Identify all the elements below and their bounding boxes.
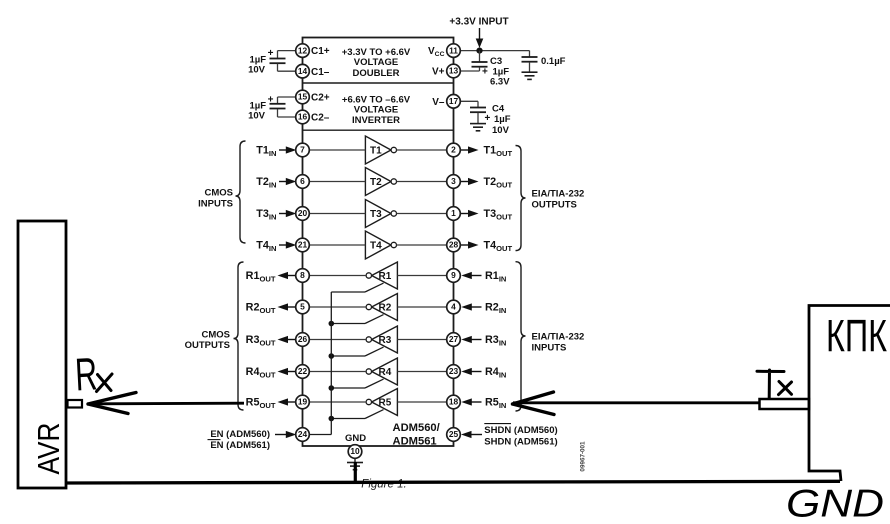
svg-text:9: 9	[451, 270, 456, 280]
node: pin 13	[447, 64, 461, 78]
svg-text:16: 16	[298, 112, 308, 122]
wire: T1 output to pin	[397, 149, 454, 151]
node: pin 10	[348, 445, 362, 459]
node: arrowhead at AVR Rx	[88, 393, 136, 414]
node R5OUT label and arrow	[246, 397, 296, 411]
svg-text:C4: C4	[492, 104, 505, 115]
node T1OUT label and arrow	[460, 145, 512, 159]
node T2IN label and arrow	[256, 176, 296, 190]
node T2OUT label and arrow	[460, 176, 512, 190]
svg-text:18: 18	[449, 397, 459, 407]
wire: pin 10 to ground	[354, 458, 356, 463]
wire: GND bus from AVR to KPK (hand drawn)	[66, 481, 840, 483]
node R4OUT label and arrow	[246, 366, 296, 380]
svg-text:INPUTS: INPUTS	[532, 342, 567, 353]
node: pin 1	[447, 207, 461, 221]
wire: VCC rail pin 11 to bypass caps	[460, 50, 529, 52]
node: EIA/TIA-232 INPUTS brace	[516, 262, 526, 411]
node: CMOS INPUTS label	[198, 187, 233, 209]
svg-text:INVERTER: INVERTER	[352, 115, 400, 126]
receiver R5 inverter	[366, 389, 397, 416]
svg-text:1: 1	[451, 208, 456, 218]
node: voltage doubler block label	[342, 47, 411, 79]
node: CMOS OUTPUTS brace	[234, 262, 244, 410]
svg-text:CMOS: CMOS	[202, 329, 231, 340]
node R1OUT label and arrow	[246, 270, 296, 284]
svg-text:V–: V–	[432, 97, 445, 108]
wire: T2 output to pin	[397, 181, 454, 183]
node: pin 2	[447, 143, 461, 157]
capacitor C1 (1uF 10V) at pins 12/14	[248, 48, 296, 76]
wire: T4 output to pin	[397, 244, 454, 246]
node R5IN label and arrow	[461, 397, 506, 411]
svg-text:VOLTAGE: VOLTAGE	[354, 105, 399, 116]
node: enable junction R5	[329, 416, 335, 422]
node SHDN-bar (ADM560) label	[484, 424, 557, 436]
capacitor C4 (1uF 10V) on V-	[460, 101, 510, 136]
svg-text:10V: 10V	[492, 125, 510, 136]
node: pin 14	[296, 64, 310, 78]
node: pin 27	[447, 333, 461, 347]
capacitor 0.1uF bypass	[522, 51, 566, 80]
svg-text:T4: T4	[370, 241, 382, 252]
svg-text:+3.3V INPUT: +3.3V INPUT	[449, 17, 508, 28]
svg-text:1µF: 1µF	[494, 114, 511, 125]
node T1IN label and arrow	[256, 145, 296, 159]
node T3IN label and arrow	[256, 208, 296, 222]
svg-text:3: 3	[451, 176, 456, 186]
node: enable junction R2	[329, 321, 335, 327]
svg-text:19: 19	[298, 397, 308, 407]
wire: +3.3V input drop	[479, 28, 481, 40]
svg-text:2: 2	[451, 145, 456, 155]
node: pin 12	[296, 44, 310, 58]
svg-text:8: 8	[300, 270, 305, 280]
svg-text:T3: T3	[370, 209, 382, 220]
node: arrow out of pin 25	[461, 431, 482, 438]
wire: enable tap to R1	[331, 291, 365, 293]
transmitter T2 inverter	[365, 168, 396, 196]
svg-text:EIA/TIA-232: EIA/TIA-232	[532, 188, 585, 199]
wire: divider below voltage inverter	[303, 129, 454, 131]
wire: pin to T1 input	[303, 149, 366, 151]
wire: enable tap to R2	[331, 323, 365, 325]
node: pin 24	[296, 428, 310, 442]
svg-text:ADM561: ADM561	[393, 435, 437, 447]
node: arrow into pin 24	[275, 431, 296, 438]
node: pin 4	[447, 300, 461, 314]
wire: pin to R3 input	[397, 339, 453, 341]
receiver R1 inverter	[366, 262, 397, 289]
svg-text:EN (ADM561): EN (ADM561)	[210, 440, 270, 451]
wire: divider below voltage doubler	[303, 82, 454, 84]
wire: R3 output to pin	[303, 339, 367, 341]
svg-text:10: 10	[350, 446, 360, 456]
svg-text:SHDN (ADM561): SHDN (ADM561)	[484, 437, 557, 448]
node: pin 19	[296, 395, 310, 409]
op-amp U1: ADM560/ADM561 chip outline	[303, 38, 454, 447]
node: EIA/TIA-232 OUTPUTS label	[532, 188, 585, 210]
wire: Tx line from KPK to R5IN (hand drawn)	[513, 401, 759, 404]
svg-text:OUTPUTS: OUTPUTS	[185, 340, 230, 351]
svg-text:GND: GND	[786, 483, 884, 524]
node: pin 15	[296, 90, 310, 104]
transmitter T4 inverter	[365, 231, 396, 259]
node R2IN label and arrow	[461, 302, 506, 316]
svg-text:15: 15	[298, 92, 308, 102]
svg-text:0.1µF: 0.1µF	[541, 56, 566, 67]
wire: T3 output to pin	[397, 213, 454, 215]
svg-text:R2: R2	[379, 303, 392, 314]
svg-text:V+: V+	[432, 67, 445, 78]
node: arrowhead at R5IN	[513, 392, 555, 415]
svg-text:INPUTS: INPUTS	[198, 198, 233, 209]
svg-text:17: 17	[449, 96, 459, 106]
node: Tx label	[757, 370, 792, 398]
node: pin 20	[296, 207, 310, 221]
svg-text:4: 4	[451, 302, 456, 312]
node: pin 8	[296, 269, 310, 283]
svg-text:+: +	[482, 66, 488, 77]
wire: R1 output to pin	[303, 275, 367, 277]
node: pin 18	[447, 395, 461, 409]
node: voltage inverter block label	[342, 94, 411, 126]
node: chip part number ADM560/ADM561	[393, 422, 440, 447]
svg-text:22: 22	[298, 366, 308, 376]
wire: pin to T4 input	[303, 244, 366, 246]
node: pin 26	[296, 333, 310, 347]
svg-text:EN (ADM560): EN (ADM560)	[210, 429, 270, 440]
node: pin 5	[296, 300, 310, 314]
node: pin 25	[447, 428, 461, 442]
svg-text:CMOS: CMOS	[205, 187, 234, 198]
transmitter T1 inverter	[365, 136, 396, 164]
svg-text:R5: R5	[379, 398, 392, 409]
svg-text:10V: 10V	[248, 65, 266, 76]
svg-text:14: 14	[298, 66, 308, 76]
node: pin 17	[447, 95, 461, 109]
capacitor C2 (1uF 10V) at pins 15/16	[248, 94, 296, 121]
wire: enable tap to R3	[331, 355, 365, 357]
node: AVR microcontroller box (hand drawn)	[18, 221, 66, 488]
wire: pin to T2 input	[303, 181, 366, 183]
svg-text:Figure 1.: Figure 1.	[361, 479, 406, 491]
svg-text:C3: C3	[490, 56, 502, 67]
svg-text:23: 23	[449, 366, 459, 376]
node: EIA/TIA-232 INPUTS label	[532, 331, 585, 353]
node R3OUT label and arrow	[246, 334, 296, 348]
node: enable junction R3	[329, 353, 335, 359]
svg-text:25: 25	[449, 429, 459, 439]
node T3OUT label and arrow	[460, 208, 512, 222]
node T4OUT label and arrow	[460, 240, 512, 254]
svg-text:DOUBLER: DOUBLER	[353, 68, 400, 79]
svg-text:C1–: C1–	[311, 67, 330, 78]
node: pin 9	[447, 269, 461, 283]
node: Tx pad on KPK	[760, 399, 810, 409]
node: pin 22	[296, 365, 310, 379]
node: pin 11	[447, 44, 461, 58]
node: EIA/TIA-232 OUTPUTS brace	[516, 146, 526, 251]
svg-text:VOLTAGE: VOLTAGE	[354, 57, 399, 68]
wire: pin to R4 input	[397, 371, 453, 373]
svg-text:24: 24	[298, 429, 308, 439]
svg-text:5: 5	[300, 302, 305, 312]
wire: pin to R5 input	[397, 401, 453, 403]
wire: pin to T3 input	[303, 213, 366, 215]
node: enable junction R4	[329, 385, 335, 391]
svg-text:C2–: C2–	[311, 113, 330, 124]
svg-text:13: 13	[449, 66, 459, 76]
svg-text:11: 11	[449, 45, 458, 55]
svg-text:T1: T1	[370, 146, 382, 157]
wire: R5 output to pin	[303, 401, 367, 403]
svg-text:28: 28	[449, 240, 459, 250]
svg-text:20: 20	[298, 208, 308, 218]
svg-text:SHDN (ADM560): SHDN (ADM560)	[484, 425, 557, 436]
ground: chip ground symbol	[347, 462, 363, 464]
node R1IN label and arrow	[461, 270, 506, 284]
svg-text:27: 27	[449, 334, 459, 344]
svg-text:10V: 10V	[248, 111, 266, 122]
wire: Rx line from R5OUT to AVR (hand drawn)	[92, 402, 244, 405]
svg-text:6: 6	[300, 176, 305, 186]
node EN-bar (ADM561) label	[208, 440, 271, 452]
receiver R3 inverter	[366, 326, 397, 353]
svg-text:R3: R3	[379, 335, 392, 346]
transmitter T3 inverter	[365, 200, 396, 228]
node: pin 16	[296, 110, 310, 124]
svg-text:T2: T2	[370, 177, 382, 188]
svg-text:КПК: КПК	[826, 311, 887, 362]
wire: enable vertical bus from pin 24	[330, 292, 332, 435]
svg-text:C2+: C2+	[311, 93, 330, 104]
svg-text:R: R	[74, 347, 99, 400]
node: pin 6	[296, 175, 310, 189]
svg-text:+: +	[268, 48, 274, 59]
node R3IN label and arrow	[461, 334, 506, 348]
wire: pin to R1 input	[397, 275, 453, 277]
svg-text:12: 12	[298, 45, 308, 55]
node: junction VCC	[476, 48, 482, 54]
svg-text:+: +	[485, 113, 491, 124]
svg-text:AVR: AVR	[31, 423, 66, 475]
svg-text:EIA/TIA-232: EIA/TIA-232	[532, 331, 585, 342]
node: CMOS INPUTS brace	[236, 141, 246, 243]
wire: R2 output to pin	[303, 306, 367, 308]
node: Rx label	[74, 347, 112, 400]
node R4IN label and arrow	[461, 366, 506, 380]
node: Rx pad on AVR	[68, 400, 83, 408]
receiver R2 inverter	[366, 294, 397, 321]
node: pin 23	[447, 365, 461, 379]
node: pin 21	[296, 238, 310, 252]
wire: pin to R2 input	[397, 306, 453, 308]
svg-text:OUTPUTS: OUTPUTS	[532, 199, 577, 210]
node: KPK box (hand drawn)	[809, 306, 890, 482]
svg-text:21: 21	[298, 240, 308, 250]
wire: enable tap to R4	[331, 387, 365, 389]
node: pin 7	[296, 143, 310, 157]
svg-text:ADM560/: ADM560/	[393, 422, 440, 434]
node: CMOS OUTPUTS label	[185, 329, 230, 351]
svg-text:C1+: C1+	[311, 46, 330, 57]
wire: chip ground stub to GND bus (hand drawn)	[354, 462, 357, 484]
svg-text:R1: R1	[379, 271, 392, 282]
receiver R4 inverter	[366, 358, 397, 385]
wire: enable tap to R5	[331, 418, 365, 420]
svg-text:6.3V: 6.3V	[490, 76, 510, 87]
svg-text:R4: R4	[379, 367, 392, 378]
node: pin 3	[447, 175, 461, 189]
capacitor C3 (1uF 6.3V) between VCC and V+	[460, 51, 510, 88]
node: pin 28	[447, 238, 461, 252]
svg-text:+: +	[268, 94, 274, 105]
node R2OUT label and arrow	[246, 302, 296, 316]
wire: R4 output to pin	[303, 371, 367, 373]
svg-text:09967-001: 09967-001	[580, 441, 587, 472]
svg-text:7: 7	[300, 145, 305, 155]
node T4IN label and arrow	[256, 240, 296, 254]
svg-text:GND: GND	[345, 433, 366, 444]
svg-text:26: 26	[298, 334, 308, 344]
